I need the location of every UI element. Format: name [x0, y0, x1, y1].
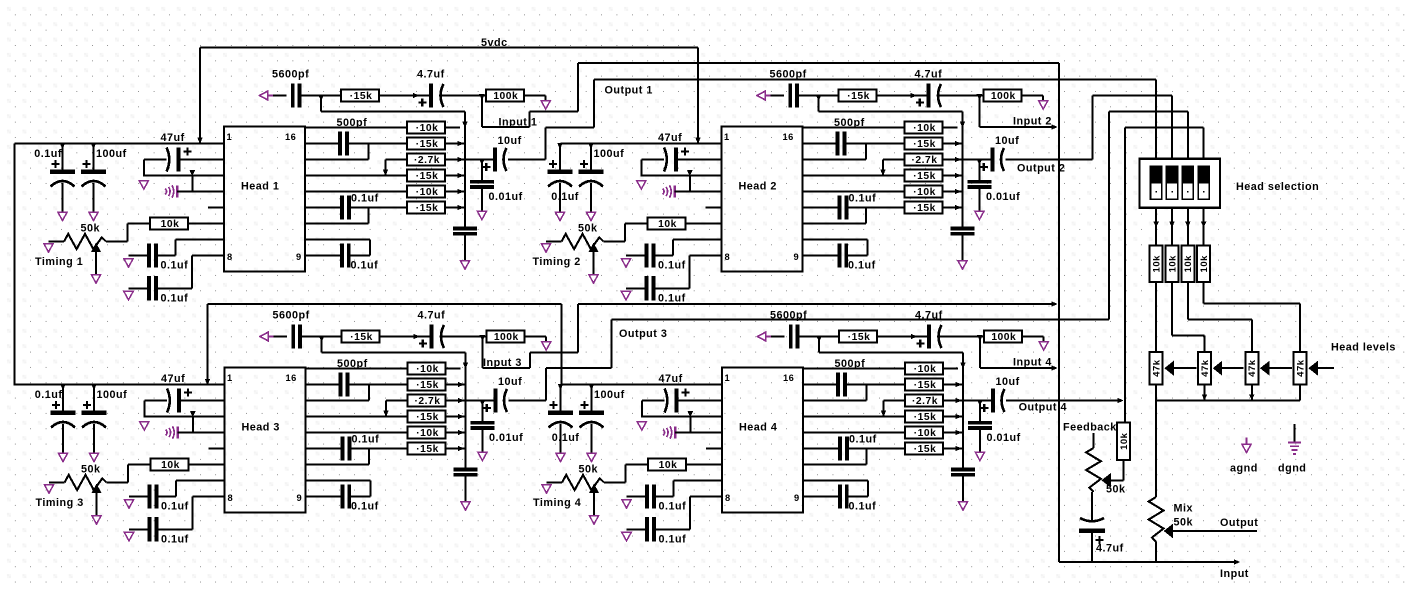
svg-text:100k: 100k	[991, 91, 1016, 102]
capacitor 47uf Head 4	[659, 373, 690, 413]
wire head levels input	[1318, 367, 1334, 369]
wire 5vdc drop to Head 2 rail	[695, 48, 701, 144]
wire 5vdc bus	[200, 47, 698, 49]
wire Input 1 line	[578, 62, 1059, 64]
wire 10k feedback to wiper	[1111, 460, 1124, 480]
wire mix pot bottom	[1155, 542, 1157, 562]
ground 100uf rail cap Head 4	[587, 453, 596, 462]
capacitor 10uf output Head 3	[483, 376, 522, 413]
resistor 10k timing Head 4	[648, 459, 686, 472]
wire pin3 to head-ground drop Head 4	[689, 417, 691, 433]
svg-text:·10k: ·10k	[416, 428, 439, 439]
wire Input 3 line	[578, 303, 1055, 305]
wire 5vdc rail Head 4	[562, 384, 723, 386]
wire timing pot to 10k Head 2	[604, 224, 648, 242]
ground 100uf rail cap Head 3	[89, 453, 98, 462]
svg-text:10k: 10k	[161, 219, 180, 230]
wire level pot 3 chain	[1270, 367, 1293, 369]
capacitor 100uf rail decoupling Head 3	[82, 384, 128, 453]
wire IC pin 14 row Head 1	[305, 144, 369, 160]
svg-text:8: 8	[228, 493, 234, 503]
ground timing pot left Head 3	[44, 485, 53, 494]
capacitor 0.1uf rail decoupling Head 2	[548, 143, 579, 212]
net label Input	[1220, 568, 1249, 580]
svg-text:Input 4: Input 4	[1013, 357, 1052, 369]
ground 0.1uf pin8 Head 3	[124, 532, 133, 541]
svg-text:Head 2: Head 2	[739, 181, 777, 193]
junction arrow Input 3	[1052, 301, 1058, 307]
wire ladder row5 out Head 1	[445, 189, 465, 195]
pin 9 label Head 4	[794, 493, 800, 503]
wire IC pin 11 row Head 2	[803, 207, 839, 209]
wiper arrow head level 1	[1164, 361, 1174, 376]
label Timing 3	[36, 497, 84, 509]
svg-text:Timing 4: Timing 4	[533, 497, 581, 509]
resistor 100k Head 1	[486, 90, 524, 103]
wire IC pin 8 row Head 4	[690, 497, 722, 530]
ground bus shunt cap Head 4	[958, 502, 967, 511]
resistor 2.7k ladder row3 Head 2	[905, 154, 943, 167]
svg-text:16: 16	[783, 373, 794, 383]
junction arrow input connector	[1234, 559, 1240, 565]
IC Head 2	[722, 127, 803, 272]
wire level pot 1 chain	[1174, 367, 1197, 369]
ground 0.1uf rail cap Head 1	[58, 212, 67, 221]
pin 1 label Head 4	[725, 373, 731, 383]
wire IC pin 16 row Head 3	[306, 368, 408, 370]
label Head selection	[1236, 181, 1319, 193]
wire 2.7k feed Head 1	[383, 160, 407, 176]
wire ladder row2 out Head 1	[445, 141, 465, 147]
wire IC pin 14 row Head 4	[803, 385, 867, 401]
ground timing wiper Head 1	[91, 275, 100, 284]
svg-text:0.01uf: 0.01uf	[489, 432, 523, 444]
svg-text:·10k: ·10k	[914, 428, 937, 439]
wire ladder row5 out Head 2	[943, 189, 963, 195]
wire 10k to IC pin 6 Head 3	[189, 464, 225, 466]
resistor 10k ladder row5 Head 3	[408, 427, 446, 440]
capacitor 0.1uf pin8 Head 2	[626, 276, 690, 304]
net label Output	[1220, 517, 1258, 529]
pin 1 label Head 3	[227, 373, 233, 383]
wire IC pin 12 row Head 4	[803, 432, 905, 434]
label Timing 2	[533, 256, 581, 268]
wire IC pin 16 row Head 4	[803, 368, 905, 370]
wire ladder row4 out Head 3	[446, 414, 466, 420]
svg-text:4.7uf: 4.7uf	[1096, 543, 1124, 555]
wire IC pin 11 row Head 1	[305, 207, 341, 209]
svg-text:0.01uf: 0.01uf	[987, 432, 1021, 444]
wire IC pin 11 row Head 4	[803, 448, 839, 450]
svg-text:50k: 50k	[81, 223, 101, 235]
ground 0.1uf pin7 Head 3	[124, 500, 133, 509]
svg-text:Output 1: Output 1	[605, 85, 653, 97]
svg-text:16: 16	[286, 373, 297, 383]
wire IC pin 10 row Head 1	[305, 208, 369, 224]
junction arrow summing onto pin16 row Head 2	[960, 122, 966, 128]
wire summing junction Head 3	[319, 336, 466, 369]
wire ladder bus Head 1	[464, 128, 466, 227]
svg-text:0.1uf: 0.1uf	[552, 432, 580, 444]
svg-text:10uf: 10uf	[498, 135, 522, 147]
wire IC pin 16 row Head 2	[803, 127, 905, 129]
svg-text:Head selection: Head selection	[1236, 181, 1319, 193]
ground 100k Head 1	[541, 101, 550, 110]
potentiometer 50k Timing 1	[64, 223, 106, 250]
junction arrow pin3 row Head 1	[190, 170, 196, 176]
wire 10k-1 to pot 1	[1155, 282, 1157, 352]
svg-text:10k: 10k	[1167, 255, 1178, 273]
junction arrow Input 2	[1052, 124, 1058, 130]
capacitor 0.1uf pin9 Head 4	[838, 484, 876, 512]
ground bus shunt cap Head 1	[460, 261, 469, 270]
ground bus shunt cap Head 3	[461, 502, 470, 511]
ground timing pot left Head 2	[541, 244, 550, 253]
svg-text:Output 4: Output 4	[1019, 402, 1067, 414]
svg-text:10k: 10k	[1199, 255, 1210, 273]
junction arrow pin3 row Head 4	[688, 411, 694, 417]
wire switch 3 bottom	[1185, 208, 1191, 246]
wire level pots ground bus	[1156, 384, 1300, 400]
wire 5vdc left vertical to Head 3 rail	[14, 144, 16, 386]
wire 47uf negative to ground Head 2	[641, 160, 664, 177]
capacitor 500pf Head 4	[835, 358, 866, 397]
svg-text:·15k: ·15k	[416, 412, 439, 423]
svg-text:500pf: 500pf	[835, 358, 866, 370]
capacitor 5600pf Head 2	[770, 69, 807, 108]
wire 0.1uf to 15k row6 Head 4	[849, 448, 905, 450]
wiper arrow head level 4	[1308, 361, 1318, 376]
wire 100k to ground Head 4	[1022, 337, 1044, 342]
svg-text:5600pf: 5600pf	[273, 310, 310, 322]
svg-text:0.1uf: 0.1uf	[35, 389, 63, 401]
net label Output 3	[619, 328, 667, 340]
svg-text:50k: 50k	[1106, 484, 1126, 496]
wire IC pin 8 row Head 2	[690, 256, 722, 289]
wiper arrow Timing 1	[91, 243, 101, 275]
resistor 15k ladder row6 Head 4	[905, 443, 943, 456]
capacitor 47uf Head 3	[161, 373, 192, 413]
ground 0.01uf Head 2	[975, 211, 984, 220]
svg-text:Output 3: Output 3	[619, 328, 667, 340]
wire IC pin 15 row Head 1	[305, 143, 339, 145]
ground 100k Head 3	[542, 342, 551, 351]
net label Input 3	[483, 357, 522, 369]
wire ladder row1 out Head 4	[943, 368, 958, 370]
svg-text:0.1uf: 0.1uf	[161, 260, 189, 272]
potentiometer 50k Timing 3	[65, 464, 107, 491]
wire 100k to ground Head 2	[1021, 96, 1043, 101]
capacitor 0.1uf pin11 Head 3	[341, 434, 380, 461]
resistor 2.7k ladder row3 Head 3	[408, 395, 446, 408]
wire timing pot left lead Head 3	[49, 482, 65, 484]
capacitor 0.01uf Head 2	[967, 159, 1020, 211]
wire 5vdc rail Head 1	[15, 143, 225, 145]
wire IC pin 5 stub Head 4	[706, 448, 722, 450]
svg-text:8: 8	[227, 252, 233, 262]
svg-text:Timing 2: Timing 2	[533, 256, 581, 268]
svg-text:Input: Input	[1220, 568, 1249, 580]
svg-text:10uf: 10uf	[995, 135, 1019, 147]
svg-text:47k: 47k	[1200, 359, 1211, 377]
ground 100k Head 4	[1039, 342, 1048, 351]
resistor 15k top Head 1	[341, 90, 379, 103]
svg-text:0.1uf: 0.1uf	[34, 148, 62, 160]
capacitor 10uf output Head 4	[980, 376, 1019, 413]
wire timing pot left lead Head 2	[546, 241, 562, 243]
svg-text:16: 16	[285, 132, 296, 142]
ground timing pot left Head 4	[542, 485, 551, 494]
wire Input 2 spur	[977, 94, 1055, 127]
wire IC pin 9a row Head 4	[803, 481, 868, 497]
wire IC pin 15 row Head 2	[803, 143, 837, 145]
resistor 10k ladder row5 Head 4	[905, 427, 943, 440]
wire timing pot left lead Head 1	[49, 241, 65, 243]
wire 5600pf to 15k Head 3	[302, 336, 342, 338]
wire 0.1uf pin9 out Head 1	[350, 255, 370, 257]
svg-text:·10k: ·10k	[913, 187, 936, 198]
capacitor 0.1uf pin8 Head 1	[129, 276, 193, 304]
ground 47uf Head 1	[139, 181, 148, 190]
capacitor 0.01uf Head 3	[470, 400, 523, 452]
ground bus shunt cap Head 2	[958, 261, 967, 270]
capacitor 0.1uf pin7 Head 4	[627, 484, 687, 512]
capacitor 4.7uf Head 1	[417, 69, 445, 108]
wire 47uf negative to ground Head 3	[144, 401, 167, 418]
svg-text:0.01uf: 0.01uf	[489, 191, 523, 203]
svg-text:47k: 47k	[1152, 359, 1163, 377]
wire level pot 2 chain	[1222, 367, 1243, 369]
wire 4.7uf to 100k Head 4	[940, 336, 984, 338]
wire mix wiper to output	[1173, 530, 1257, 532]
wire ladder row4 out Head 1	[445, 173, 465, 179]
wire timing pot to 10k Head 4	[604, 465, 648, 483]
pin 8 label Head 4	[725, 493, 731, 503]
wire 47uf negative to ground Head 4	[642, 401, 665, 418]
switch DIP4 Head selection	[1139, 159, 1220, 208]
svg-text:8: 8	[725, 252, 731, 262]
svg-text:10k: 10k	[659, 460, 678, 471]
ground timing pot left Head 1	[44, 244, 53, 253]
resistor 2.7k ladder row3 Head 4	[905, 395, 943, 408]
wire 15k to 4.7uf Head 2	[877, 93, 927, 99]
svg-text:·15k: ·15k	[416, 444, 439, 455]
svg-text:47k: 47k	[1247, 359, 1258, 377]
wire pin3 to head-ground drop Head 3	[192, 417, 194, 433]
svg-text:47k: 47k	[1296, 359, 1307, 377]
wire 5600pf to 15k Head 4	[799, 336, 839, 338]
wire 10k-2 to pot 2	[1172, 282, 1205, 352]
wire head-ground to IC pin 4 Head 2	[675, 191, 722, 193]
ground 100uf rail cap Head 1	[89, 212, 98, 221]
svg-text:agnd: agnd	[1230, 463, 1258, 475]
wire ladder row6 out Head 2	[943, 205, 963, 211]
junction arrow summing onto pin16 row Head 4	[960, 363, 966, 369]
wiper arrow Mix	[1164, 524, 1174, 539]
wire IC pin 14 row Head 2	[803, 144, 867, 160]
svg-text:Output: Output	[1220, 517, 1258, 529]
svg-text:1: 1	[725, 373, 731, 383]
capacitor bus shunt Head 4	[951, 468, 975, 502]
wire IC pin 5 stub Head 1	[208, 207, 224, 209]
svg-text:0.1uf: 0.1uf	[351, 260, 379, 272]
svg-text:100k: 100k	[991, 332, 1016, 343]
svg-text:Feedback: Feedback	[1063, 422, 1117, 434]
svg-text:4.7uf: 4.7uf	[417, 69, 445, 81]
wire input bottom rail	[1059, 561, 1234, 563]
wire IC pin 9a row Head 2	[803, 240, 868, 256]
resistor 10k timing Head 1	[150, 218, 188, 231]
resistor 100k Head 4	[984, 331, 1022, 344]
wire Output 3 net	[509, 112, 1188, 401]
ground 0.1uf rail cap Head 3	[58, 453, 67, 462]
pin 1 label Head 2	[724, 132, 730, 142]
resistor 10k ladder row1 Head 4	[905, 363, 943, 376]
svg-text:9: 9	[296, 252, 302, 262]
wire pin3 to head-ground drop Head 1	[191, 176, 193, 192]
wire IC pin 13 row Head 4	[803, 416, 905, 418]
wire 4.7uf to 100k Head 2	[939, 95, 983, 97]
input arrow 5600pf Head 4	[758, 332, 785, 341]
wire 2.7k feed Head 3	[383, 401, 407, 417]
svg-text:Input 2: Input 2	[1013, 116, 1052, 128]
capacitor 0.1uf pin11 Head 2	[838, 193, 877, 220]
wiper arrow Timing 4	[589, 484, 599, 516]
wire IC pin 11 row Head 3	[306, 448, 342, 450]
svg-text:0.1uf: 0.1uf	[658, 260, 686, 272]
svg-text:·15k: ·15k	[416, 203, 439, 214]
wire 47uf to IC pin 2 Head 3	[181, 400, 225, 402]
svg-text:47uf: 47uf	[161, 132, 185, 144]
svg-text:0.1uf: 0.1uf	[161, 501, 189, 513]
pin 1 label Head 1	[227, 132, 233, 142]
wire 5600pf to 15k Head 2	[799, 95, 839, 97]
pin 9 label Head 1	[296, 252, 302, 262]
svg-text:9: 9	[794, 252, 800, 262]
pin 9 label Head 3	[297, 493, 303, 503]
svg-text:0.1uf: 0.1uf	[161, 534, 189, 546]
svg-text:·10k: ·10k	[913, 123, 936, 134]
wire IC pin 9 row Head 4	[803, 496, 838, 498]
wire Output 2 net	[1006, 96, 1173, 160]
pin 9 label Head 2	[794, 252, 800, 262]
IC Head 1	[224, 127, 305, 272]
capacitor 47uf Head 1	[161, 132, 192, 172]
resistor 10k ladder row5 Head 1	[407, 186, 445, 199]
input arrow 5600pf Head 2	[757, 91, 784, 100]
wire head-ground to IC pin 4 Head 4	[675, 432, 722, 434]
IC Head 4	[722, 368, 803, 513]
wire 47uf to IC pin 2 Head 2	[678, 159, 722, 161]
capacitor 0.1uf pin9 Head 1	[340, 243, 378, 271]
resistor 15k ladder row4 Head 3	[408, 411, 446, 424]
wire 5vdc frame right riser to Head 4 rail	[561, 304, 563, 386]
wire 5vdc drop to Head 1 rail	[197, 48, 203, 144]
wire 2.7k out to 10uf Head 3	[446, 398, 494, 404]
junction arrow Output 4	[1118, 398, 1124, 404]
wire 500pf to 15k row2 Head 4	[846, 384, 905, 386]
svg-text:·15k: ·15k	[914, 380, 937, 391]
wire ladder row5 out Head 4	[943, 430, 963, 436]
svg-text:10k: 10k	[1152, 255, 1163, 273]
pin 16 label Head 3	[286, 373, 297, 383]
capacitor 0.1uf rail decoupling Head 1	[34, 143, 75, 212]
wire IC pin 7 row Head 3	[176, 481, 225, 497]
capacitor 0.1uf pin11 Head 1	[340, 193, 379, 220]
net label Input 1	[499, 117, 538, 129]
capacitor 0.1uf pin8 Head 4	[627, 517, 691, 545]
wire pin3 to head-ground drop Head 2	[689, 176, 691, 192]
svg-text:9: 9	[794, 493, 800, 503]
svg-text:Input 1: Input 1	[499, 117, 538, 129]
wire IC pin 9 row Head 2	[803, 255, 838, 257]
svg-text:100uf: 100uf	[594, 389, 625, 401]
svg-text:Head 4: Head 4	[739, 422, 777, 434]
svg-text:0.1uf: 0.1uf	[848, 260, 876, 272]
capacitor 0.1uf pin9 Head 3	[340, 484, 378, 512]
resistor 10k timing Head 3	[151, 459, 189, 472]
svg-text:500pf: 500pf	[337, 117, 368, 129]
resistor 10k switch 4	[1197, 246, 1210, 283]
svg-text:·15k: ·15k	[416, 380, 439, 391]
capacitor 0.1uf pin11 Head 4	[838, 434, 877, 461]
resistor 10k ladder row1 Head 1	[407, 122, 445, 135]
junction arrow pin3 row Head 3	[190, 411, 196, 417]
svg-text:·15k: ·15k	[350, 332, 373, 343]
pin 8 label Head 1	[227, 252, 233, 262]
wire IC pin 10 row Head 2	[803, 208, 867, 224]
wire 0.1uf to 15k row6 Head 3	[351, 448, 407, 450]
svg-text:1: 1	[724, 132, 730, 142]
wire 0.1uf pin9 out Head 2	[848, 255, 868, 257]
wire 10k to IC pin 6 Head 2	[686, 223, 722, 225]
capacitor bus shunt Head 2	[951, 227, 975, 261]
resistor 10k switch 2	[1166, 246, 1179, 283]
wire 47uf negative to ground Head 1	[144, 160, 167, 177]
svg-text:0.1uf: 0.1uf	[658, 293, 686, 305]
head-ground symbol Head 4	[663, 426, 676, 438]
capacitor 10uf output Head 1	[482, 135, 521, 172]
wire ladder row2 out Head 3	[446, 382, 466, 388]
wire 15k to 4.7uf Head 3	[380, 334, 430, 340]
svg-text:100k: 100k	[494, 332, 519, 343]
svg-text:·10k: ·10k	[416, 187, 439, 198]
svg-text:·15k: ·15k	[847, 91, 870, 102]
capacitor 100uf rail decoupling Head 2	[579, 143, 625, 212]
svg-text:500pf: 500pf	[337, 358, 368, 370]
wire 5vdc rail Head 2	[561, 143, 722, 145]
wire ladder row1 out Head 1	[445, 127, 460, 129]
potentiometer 47k head level 2	[1198, 352, 1211, 385]
svg-text:Timing 3: Timing 3	[36, 497, 84, 509]
ground 47uf Head 2	[637, 181, 646, 190]
wire 10k to IC pin 6 Head 1	[188, 223, 224, 225]
label Timing 4	[533, 497, 581, 509]
wire IC pin 12 row Head 3	[306, 432, 408, 434]
wire ladder row6 out Head 4	[943, 446, 963, 452]
pin 16 label Head 4	[783, 373, 794, 383]
wire IC pin 7 row Head 1	[176, 240, 225, 256]
wire IC pin 3 row Head 4	[642, 416, 722, 418]
label Feedback	[1063, 422, 1117, 434]
ground 0.1uf pin7 Head 2	[621, 259, 630, 268]
wire IC pin 10 row Head 3	[306, 449, 370, 465]
head-ground symbol Head 2	[663, 185, 676, 197]
capacitor 0.1uf pin8 Head 3	[129, 517, 193, 545]
svg-text:1: 1	[227, 132, 233, 142]
wire ladder row4 out Head 4	[943, 414, 963, 420]
resistor 10k ladder row5 Head 2	[905, 186, 943, 199]
